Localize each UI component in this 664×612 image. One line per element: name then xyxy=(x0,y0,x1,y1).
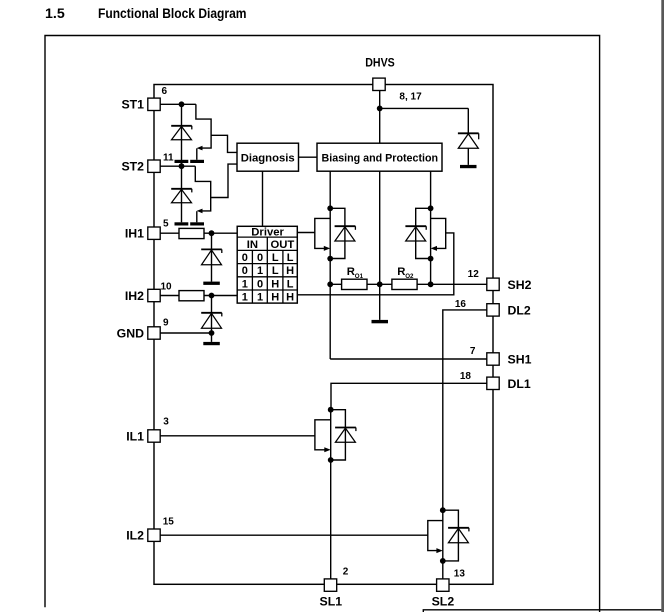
diode D1 (ST1-ST2) xyxy=(171,126,192,140)
svg-text:SL2: SL2 xyxy=(432,594,455,608)
svg-text:15: 15 xyxy=(163,517,175,528)
wire GND pin xyxy=(160,332,211,334)
wire SH2 rail with resistors xyxy=(330,283,487,285)
node IH1 junction xyxy=(209,230,215,236)
svg-text:R: R xyxy=(397,266,405,278)
transistor M3 channel rail to SL1 xyxy=(330,410,332,579)
pin IH2 xyxy=(125,282,172,303)
transistor T1 drain-gate step path xyxy=(196,104,211,148)
svg-text:7: 7 xyxy=(470,346,476,357)
transistor M4 channel rail to SL2 xyxy=(442,510,444,579)
svg-text:1.5: 1.5 xyxy=(45,6,65,22)
pin IL1 xyxy=(126,417,169,444)
wire ST2 xyxy=(160,165,195,167)
transistor M1 gate arrow xyxy=(324,246,330,251)
svg-text:10: 10 xyxy=(161,282,173,293)
svg-text:1: 1 xyxy=(242,292,248,304)
svg-text:2: 2 xyxy=(343,567,349,578)
svg-text:DL1: DL1 xyxy=(508,377,531,391)
svg-text:11: 11 xyxy=(163,153,174,164)
wire IL1 to M3 gate xyxy=(160,435,315,437)
node M4 source xyxy=(440,558,446,564)
svg-text:16: 16 xyxy=(455,299,467,310)
svg-text:IN: IN xyxy=(247,239,258,251)
transistor M2 body loop xyxy=(416,208,431,258)
pin GND xyxy=(117,318,169,341)
wire Biasing center rail to ground xyxy=(379,171,381,320)
svg-text:H: H xyxy=(286,265,294,277)
wire DL1 xyxy=(331,383,487,409)
svg-text:1: 1 xyxy=(257,292,263,304)
wire Driver to M1 gate xyxy=(297,232,315,234)
resistor IH2 series xyxy=(179,291,204,301)
wire IH1 junction down xyxy=(211,233,213,281)
svg-text:9: 9 xyxy=(163,318,169,329)
transistor M1 body loop xyxy=(330,208,345,258)
pin SL1 xyxy=(320,567,349,609)
transistor T2 gate vertical xyxy=(196,211,198,222)
svg-text:H: H xyxy=(286,292,294,304)
svg-text:Functional Block Diagram: Functional Block Diagram xyxy=(98,6,247,22)
ground below GND junction xyxy=(203,342,220,345)
svg-text:0: 0 xyxy=(242,252,248,264)
pin DL2 xyxy=(455,299,531,318)
wire Diagnosis to Driver xyxy=(262,171,264,226)
svg-text:1: 1 xyxy=(257,265,263,277)
transistor M3 body loop xyxy=(331,410,346,460)
transistor M4 gate bracket xyxy=(428,521,443,551)
driver table Driver xyxy=(237,226,297,303)
transistor M2 gate arrow xyxy=(431,246,437,251)
zener diode D7 xyxy=(458,108,479,164)
pin DL1 xyxy=(460,371,531,391)
wire IH2 junction down xyxy=(211,296,213,342)
diode M2 body xyxy=(405,226,426,241)
svg-text:8, 17: 8, 17 xyxy=(399,91,422,102)
wire T1 to Diagnosis xyxy=(211,135,237,152)
svg-text:O1: O1 xyxy=(355,273,364,280)
svg-text:SH1: SH1 xyxy=(508,353,532,367)
svg-text:0: 0 xyxy=(242,265,248,277)
svg-text:SL1: SL1 xyxy=(320,594,343,608)
node M3 drain xyxy=(328,407,334,413)
svg-text:18: 18 xyxy=(460,371,472,382)
resistor RO2 xyxy=(392,279,417,289)
transistor M3 gate arrow xyxy=(324,447,330,452)
transistor M4 body loop xyxy=(443,510,459,561)
svg-text:Biasing and Protection: Biasing and Protection xyxy=(322,152,439,164)
node M2 drain xyxy=(428,205,434,211)
svg-text:IL1: IL1 xyxy=(126,429,144,443)
svg-text:12: 12 xyxy=(468,269,480,280)
diode M1 body xyxy=(335,226,356,241)
block Biasing and Protection xyxy=(317,143,442,171)
node M1 drain xyxy=(327,205,333,211)
ground below D3 xyxy=(203,282,220,285)
svg-text:Driver: Driver xyxy=(251,226,284,238)
footer table top-left corner (partial, bottom right) xyxy=(423,610,664,612)
pin ST1 xyxy=(121,86,167,112)
svg-text:R: R xyxy=(347,266,355,278)
ground center rail xyxy=(372,320,389,323)
transistor M3 gate bracket xyxy=(315,420,331,450)
resistor RO1 xyxy=(342,279,367,289)
wire DL2 xyxy=(443,310,487,510)
transistor T1 gate arrow xyxy=(197,146,203,151)
pin ST2 xyxy=(121,153,174,174)
pin SL2 xyxy=(432,569,466,609)
svg-text:O2: O2 xyxy=(405,273,414,280)
pin SH2 xyxy=(468,269,532,292)
transistor T1 gate vertical xyxy=(196,148,198,159)
svg-text:SH2: SH2 xyxy=(508,278,532,292)
node M1 source xyxy=(327,256,333,262)
svg-text:H: H xyxy=(271,278,279,290)
wire IL2 to M4 gate xyxy=(160,534,428,536)
node M4 drain xyxy=(440,507,446,513)
svg-text:DHVS: DHVS xyxy=(365,55,395,69)
wire SH1 xyxy=(330,358,487,360)
node ST1 junction xyxy=(179,101,185,107)
svg-text:DL2: DL2 xyxy=(508,304,531,318)
transistor M1 gate bracket xyxy=(315,218,330,248)
svg-text:ST2: ST2 xyxy=(121,160,144,174)
wire Diagnosis to Biasing xyxy=(299,156,318,158)
node M3 source xyxy=(328,457,334,463)
node M1 source to SH2 rail xyxy=(327,281,333,287)
svg-text:6: 6 xyxy=(162,86,168,97)
svg-text:1: 1 xyxy=(242,278,248,290)
node GND junction xyxy=(209,330,215,336)
wire IH1 to Driver xyxy=(160,232,237,234)
svg-text:IH2: IH2 xyxy=(125,289,144,303)
wire M1 drain rail from Biasing xyxy=(329,171,331,359)
svg-text:3: 3 xyxy=(163,417,169,428)
svg-text:L: L xyxy=(287,252,294,264)
pin DHVS xyxy=(365,55,422,102)
wire ST1 to ST2 vertical xyxy=(181,104,183,166)
svg-text:0: 0 xyxy=(257,278,263,290)
svg-text:0: 0 xyxy=(257,252,263,264)
block Diagnosis xyxy=(237,143,299,171)
diode M3 body xyxy=(335,428,356,443)
svg-text:H: H xyxy=(271,292,279,304)
svg-text:L: L xyxy=(272,265,279,277)
diode M4 body xyxy=(448,528,469,543)
svg-text:ST1: ST1 xyxy=(121,98,144,112)
diode D3 (IH1 clamp) xyxy=(201,249,222,264)
wire DHVS to zener D7 xyxy=(380,107,469,109)
wire IH2 to Driver xyxy=(160,295,237,297)
svg-text:L: L xyxy=(287,278,294,290)
transistor T1 source/drain bars xyxy=(175,160,189,163)
node DHVS junction xyxy=(377,106,383,112)
node IH2 junction xyxy=(209,293,215,299)
pin IH1 xyxy=(125,219,169,241)
diode D2 (ST2-IH1) xyxy=(171,189,192,203)
pin SH1 xyxy=(470,346,532,367)
wire ST2 down vertical xyxy=(181,166,183,222)
wire ST1 xyxy=(160,103,196,105)
svg-text:5: 5 xyxy=(163,219,169,230)
pin IL2 xyxy=(126,517,174,543)
transistor T2 drain-gate step path xyxy=(195,166,210,211)
svg-text:L: L xyxy=(272,252,279,264)
diode D4 (IH2 clamp) xyxy=(201,313,222,328)
svg-text:IH1: IH1 xyxy=(125,227,144,241)
wire DHVS vertical xyxy=(379,90,381,143)
node M2 source to SH2 rail xyxy=(428,281,434,287)
page right gray edge line xyxy=(661,0,664,612)
figure outer frame xyxy=(45,36,600,612)
svg-text:13: 13 xyxy=(454,569,466,580)
node M2 source xyxy=(428,256,434,262)
wire Driver to M2 gate xyxy=(297,233,454,295)
transistor T2 source/drain bars xyxy=(175,222,189,225)
svg-text:OUT: OUT xyxy=(270,239,294,251)
transistor M4 gate arrow xyxy=(436,548,442,553)
transistor M2 gate bracket xyxy=(431,218,446,248)
resistor IH1 series xyxy=(179,228,204,238)
wire M2 drain rail from Biasing xyxy=(430,171,432,284)
svg-text:Diagnosis: Diagnosis xyxy=(241,152,295,164)
inner diagram border box xyxy=(154,85,493,585)
svg-text:GND: GND xyxy=(117,326,144,340)
ground below zener D7 xyxy=(460,165,477,168)
node center rail / SH2 wire xyxy=(377,281,383,287)
svg-text:IL2: IL2 xyxy=(126,529,144,543)
wire T2 to Diagnosis xyxy=(211,164,237,197)
transistor T2 gate arrow xyxy=(197,209,203,214)
node ST2 junction xyxy=(179,163,185,169)
